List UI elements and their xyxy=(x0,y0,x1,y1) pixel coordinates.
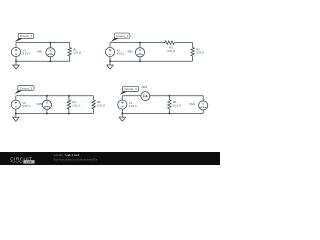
node junction C1 top xyxy=(49,42,51,44)
node junction C3 ground xyxy=(15,113,17,115)
node junction C4 R6 top xyxy=(168,95,170,97)
label bubble Circuit_4 xyxy=(120,86,139,94)
resistor R3 xyxy=(191,43,194,62)
svg-text:5.01 V: 5.01 V xyxy=(129,104,137,108)
ground C2 xyxy=(107,61,114,69)
svg-text:Circuit_3: Circuit_3 xyxy=(20,86,32,90)
label V4 5.01 V xyxy=(129,101,137,108)
node junction C2 bottom xyxy=(139,60,141,62)
svg-text:2.01 Ω: 2.01 Ω xyxy=(167,49,175,53)
voltmeter VM4 xyxy=(199,101,208,110)
wire top C4 right segment xyxy=(150,95,203,97)
node junction C4 R6 bottom xyxy=(168,112,170,114)
wire top C2 left segment xyxy=(110,42,165,44)
node junction C1 bottom xyxy=(49,60,51,62)
label R2 2.01 &#937; xyxy=(167,46,175,53)
ground C3 xyxy=(13,114,20,122)
svg-text:5.01 V: 5.01 V xyxy=(117,52,125,56)
node junction C3 R4 top xyxy=(68,95,70,97)
label R5 3.01 &#937; xyxy=(97,100,105,107)
svg-text:VM2: VM2 xyxy=(127,50,133,54)
footer title mku26 / Lab 1 ex3 xyxy=(54,153,80,157)
label VM2 xyxy=(127,50,133,54)
svg-text:Circuit_1: Circuit_1 xyxy=(20,34,32,38)
node junction C2 top xyxy=(139,42,141,44)
label VM1 xyxy=(37,50,43,54)
resistor R2 xyxy=(165,41,175,44)
wire top C1 xyxy=(16,42,70,44)
svg-text:VM4: VM4 xyxy=(189,102,195,106)
footer url xyxy=(54,157,98,161)
node junction C2 ground xyxy=(109,60,111,62)
wire top C2 right segment xyxy=(174,42,192,44)
svg-text:3.01 Ω: 3.01 Ω xyxy=(97,103,105,107)
wire bottom C1 xyxy=(16,60,70,62)
label R3 3.01 &#937; xyxy=(196,47,204,54)
svg-text:3.01 Ω: 3.01 Ω xyxy=(196,51,204,55)
label V2 5.01 V xyxy=(117,48,125,55)
label V3 5.01 V xyxy=(22,101,30,108)
svg-text:VM3: VM3 xyxy=(37,102,43,106)
svg-text:http://circuitlab.com/c/drykor: http://circuitlab.com/c/drykoralw55e xyxy=(54,157,98,161)
voltmeter VM1 xyxy=(46,48,55,57)
resistor R6 xyxy=(168,96,171,114)
node junction C3 R4 bottom xyxy=(68,113,70,115)
resistor R4 xyxy=(67,96,70,114)
label AM1 xyxy=(142,85,148,89)
svg-text:5.01 V: 5.01 V xyxy=(23,52,31,56)
wire top C3 xyxy=(16,95,94,97)
resistor R1 xyxy=(68,43,71,62)
CircuitLab logo CIRCUIT xyxy=(10,156,32,161)
svg-text:AM1: AM1 xyxy=(142,85,148,89)
label bubble Circuit_1 xyxy=(15,34,34,43)
wire top C4 left segment xyxy=(122,95,141,97)
wire V2 stubs xyxy=(109,43,111,62)
wire bottom C3 xyxy=(16,113,94,115)
svg-text:VM1: VM1 xyxy=(37,50,43,54)
voltage source V1 xyxy=(11,47,20,56)
svg-text:Circuit_4: Circuit_4 xyxy=(124,87,136,91)
CircuitLab logo resistor zigzag xyxy=(11,161,22,163)
CircuitLab logo LAB box xyxy=(23,160,34,164)
svg-text:1.01 Ω: 1.01 Ω xyxy=(73,51,81,55)
wire VM1 stubs xyxy=(49,43,51,62)
wire VM4 stubs xyxy=(202,96,204,114)
label R4 2.01 &#937; xyxy=(72,100,80,107)
voltmeter VM2 xyxy=(135,48,144,57)
voltage source V3 xyxy=(11,100,20,109)
svg-text:2.01 Ω: 2.01 Ω xyxy=(72,103,80,107)
label VM4 xyxy=(189,102,195,106)
svg-text:LAB: LAB xyxy=(26,160,31,164)
node junction C1 ground xyxy=(15,60,17,62)
footer bar xyxy=(0,152,220,165)
label R1 1.01 &#937; xyxy=(73,47,81,54)
ground C4 xyxy=(119,113,126,121)
svg-text:6.01 Ω: 6.01 Ω xyxy=(173,103,181,107)
wire VM2 stubs xyxy=(139,43,141,62)
svg-text:5.01 V: 5.01 V xyxy=(22,104,30,108)
label bubble Circuit_3 xyxy=(14,86,34,95)
wire V3 stubs xyxy=(15,96,17,114)
voltage source V2 xyxy=(105,47,114,56)
node junction C3 VM top xyxy=(46,95,48,97)
label R6 6.01 &#937; xyxy=(173,100,181,107)
wire V4 stubs xyxy=(121,96,123,114)
node junction C3 VM bottom xyxy=(46,113,48,115)
label bubble Circuit_2 xyxy=(111,33,130,42)
voltmeter VM3 xyxy=(42,100,51,109)
wire V1 stubs xyxy=(15,43,17,62)
node junction C4 ground xyxy=(121,112,123,114)
wire VM3 stubs xyxy=(46,96,48,114)
wire bottom C2 xyxy=(110,60,193,62)
voltage source V4 xyxy=(118,100,127,109)
label VM3 xyxy=(37,102,43,106)
resistor R5 xyxy=(92,96,95,114)
wire bottom C4 xyxy=(122,112,203,114)
svg-text:Circuit_2: Circuit_2 xyxy=(116,34,128,38)
label V1 5.01 V xyxy=(23,48,31,55)
ground C1 xyxy=(13,61,20,69)
ammeter AM1 xyxy=(141,92,150,101)
